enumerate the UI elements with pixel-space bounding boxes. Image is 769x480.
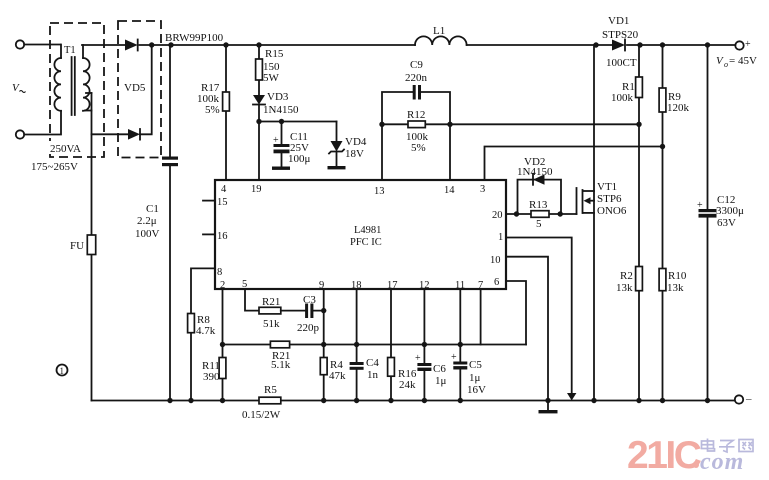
svg-text:FU: FU xyxy=(70,240,84,252)
svg-text:220n: 220n xyxy=(405,72,428,84)
svg-text:L4981: L4981 xyxy=(354,225,381,236)
svg-text:13k: 13k xyxy=(667,282,684,294)
svg-text:R2: R2 xyxy=(620,270,633,282)
svg-text:175~265V: 175~265V xyxy=(31,161,78,173)
svg-text:5.1k: 5.1k xyxy=(271,359,291,371)
svg-text:15: 15 xyxy=(217,197,228,208)
svg-text:STP6: STP6 xyxy=(597,193,622,205)
svg-text:5%: 5% xyxy=(205,104,220,116)
svg-text:1μ: 1μ xyxy=(469,372,481,384)
svg-text:16V: 16V xyxy=(467,384,486,396)
svg-text:C3: C3 xyxy=(303,294,316,306)
svg-text:220p: 220p xyxy=(297,322,320,334)
svg-text:C5: C5 xyxy=(469,359,482,371)
svg-text:250VA: 250VA xyxy=(50,143,81,155)
svg-text:C6: C6 xyxy=(433,363,446,375)
svg-text:+: + xyxy=(415,353,421,364)
svg-text:47k: 47k xyxy=(329,370,346,382)
svg-text:120k: 120k xyxy=(667,102,690,114)
svg-text:13: 13 xyxy=(374,186,385,197)
svg-text:+: + xyxy=(697,200,703,211)
svg-text:14: 14 xyxy=(444,185,455,196)
svg-text:R15: R15 xyxy=(265,48,284,60)
svg-text:R12: R12 xyxy=(407,109,425,121)
svg-text:5: 5 xyxy=(536,218,542,230)
svg-text:C4: C4 xyxy=(366,357,379,369)
svg-text:o: o xyxy=(724,60,728,69)
svg-text:100μ: 100μ xyxy=(288,153,311,165)
svg-text:C9: C9 xyxy=(410,59,423,71)
svg-text:16: 16 xyxy=(217,231,228,242)
svg-text:1N4150: 1N4150 xyxy=(517,166,553,178)
svg-text:4.7k: 4.7k xyxy=(196,325,216,337)
svg-text:18V: 18V xyxy=(345,148,364,160)
svg-text:VD5: VD5 xyxy=(124,82,146,94)
svg-text:VD3: VD3 xyxy=(267,91,289,103)
svg-text:100CT: 100CT xyxy=(606,57,637,69)
svg-text:L1: L1 xyxy=(433,25,445,37)
svg-text:63V: 63V xyxy=(717,217,736,229)
svg-text:ONO6: ONO6 xyxy=(597,205,627,217)
svg-text:1n: 1n xyxy=(367,369,379,381)
svg-text:8: 8 xyxy=(217,267,222,278)
svg-text:BRW99P100: BRW99P100 xyxy=(165,32,224,44)
svg-text:24k: 24k xyxy=(399,379,416,391)
svg-text:+: + xyxy=(273,135,279,146)
svg-text:R21: R21 xyxy=(262,296,280,308)
svg-text:+: + xyxy=(451,352,457,363)
svg-text:VD4: VD4 xyxy=(345,136,367,148)
svg-text:100k: 100k xyxy=(611,92,634,104)
svg-text:19: 19 xyxy=(251,184,262,195)
svg-text:PFC IC: PFC IC xyxy=(350,237,382,248)
svg-text:V: V xyxy=(12,82,20,94)
svg-text:1: 1 xyxy=(60,366,65,376)
svg-text:T1: T1 xyxy=(64,45,76,56)
svg-text:13k: 13k xyxy=(616,282,633,294)
svg-text:100V: 100V xyxy=(135,228,160,240)
svg-text:com: com xyxy=(700,449,744,475)
svg-text:VD1: VD1 xyxy=(608,15,629,27)
svg-text:C1: C1 xyxy=(146,203,159,215)
svg-text:10: 10 xyxy=(490,255,501,266)
svg-text:1: 1 xyxy=(498,232,503,243)
svg-text:R10: R10 xyxy=(668,270,687,282)
svg-text:21IC: 21IC xyxy=(627,434,702,477)
svg-text:17: 17 xyxy=(387,280,398,291)
svg-text:+: + xyxy=(745,39,751,50)
svg-text:0.15/2W: 0.15/2W xyxy=(242,409,281,421)
svg-text:VT1: VT1 xyxy=(597,181,617,193)
svg-text:5%: 5% xyxy=(411,142,426,154)
svg-text:3300μ: 3300μ xyxy=(716,205,744,217)
svg-text:5W: 5W xyxy=(263,72,280,84)
svg-text:390: 390 xyxy=(203,371,220,383)
svg-text:STPS20: STPS20 xyxy=(602,29,639,41)
svg-text:4: 4 xyxy=(221,184,227,195)
svg-text:V: V xyxy=(716,55,724,67)
svg-text:R13: R13 xyxy=(529,199,548,211)
svg-text:1N4150: 1N4150 xyxy=(263,104,299,116)
svg-text:–: – xyxy=(745,393,752,405)
svg-text:R5: R5 xyxy=(264,384,277,396)
svg-text:20: 20 xyxy=(492,210,503,221)
svg-text:1μ: 1μ xyxy=(435,375,447,387)
svg-text:51k: 51k xyxy=(263,318,280,330)
svg-text:= 45V: = 45V xyxy=(729,55,757,67)
svg-text:3: 3 xyxy=(480,184,485,195)
svg-text:6: 6 xyxy=(494,277,499,288)
svg-text:2.2μ: 2.2μ xyxy=(137,215,157,227)
